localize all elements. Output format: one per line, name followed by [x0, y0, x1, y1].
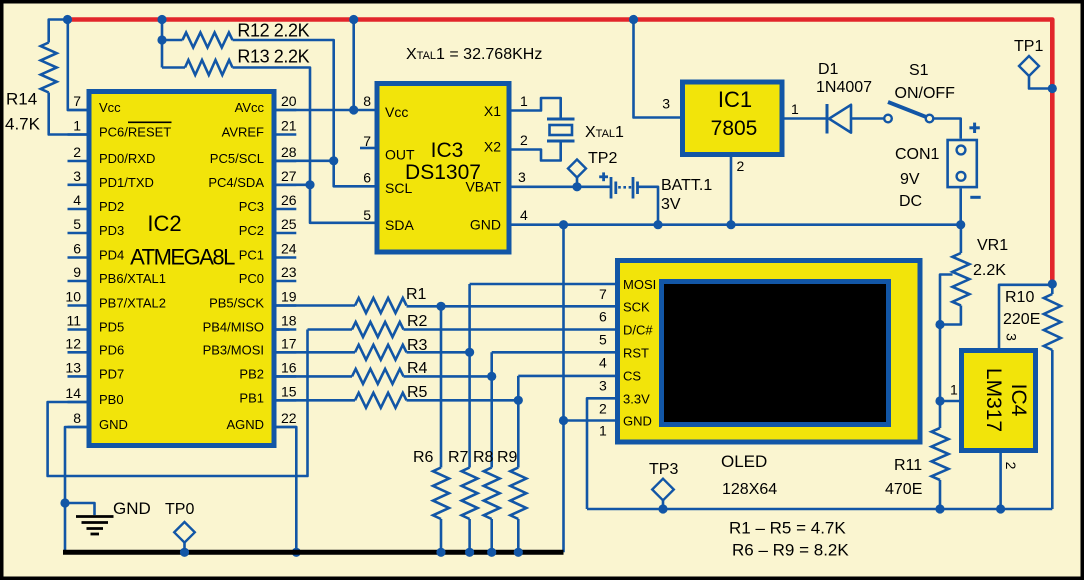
IC2 pin 17 stub: [277, 351, 297, 354]
connector CON1: [948, 140, 977, 187]
node rail-AVcc: [349, 15, 358, 24]
svg-text:6: 6: [73, 241, 81, 257]
svg-text:10: 10: [65, 289, 81, 305]
IC2 pin 25 stub: [277, 232, 297, 235]
svg-text:RST: RST: [623, 345, 649, 360]
svg-text:6: 6: [363, 170, 371, 186]
svg-text:8: 8: [363, 93, 371, 109]
svg-text:R10: R10: [1005, 289, 1034, 306]
svg-text:PB2: PB2: [239, 366, 264, 381]
svg-text:1N4007: 1N4007: [816, 79, 872, 96]
node R1-R6: [436, 302, 445, 311]
svg-text:25: 25: [281, 216, 297, 232]
battery dots: [618, 186, 631, 189]
IC2 pin 18 stub wire: [277, 328, 297, 331]
svg-text:R14: R14: [6, 90, 37, 109]
svg-text:3V: 3V: [661, 196, 681, 213]
svg-text:PB4/MISO: PB4/MISO: [203, 320, 264, 335]
node SCL junction: [329, 156, 338, 165]
vertical wire SCK to R6: [440, 306, 443, 467]
R11 bottom lead: [939, 480, 942, 509]
crystal XTAL1 body: [550, 125, 573, 135]
svg-text:17: 17: [281, 335, 297, 351]
svg-text:PD6: PD6: [99, 342, 124, 357]
svg-text:14: 14: [65, 385, 81, 401]
wire IC3 GND down to ground bus: [562, 225, 565, 553]
wire GND net to VR1: [960, 225, 963, 253]
svg-text:DS1307: DS1307: [405, 161, 481, 184]
diode D1 cathode bar: [826, 104, 829, 134]
CON1 bottom terminal: [957, 172, 966, 181]
IC2 pin 4 stub: [68, 208, 87, 211]
svg-text:PB3/MOSI: PB3/MOSI: [203, 342, 264, 357]
svg-text:9: 9: [73, 264, 81, 280]
svg-text:R2: R2: [407, 313, 428, 330]
IC2 pin 14 stub: [68, 401, 87, 404]
IC2 pin 6 stub: [68, 256, 87, 259]
svg-text:GND: GND: [113, 499, 151, 518]
ground return wire: [512, 223, 961, 226]
IC2 pin 7 stub: [68, 109, 87, 112]
wire PB0 loop to R2: [308, 328, 353, 331]
wire X1 to crystal: [512, 98, 561, 118]
R8 lead to bus: [490, 519, 493, 552]
svg-text:D/C#: D/C#: [623, 323, 653, 338]
svg-text:2: 2: [520, 132, 528, 148]
wire R13 to SDA net: [233, 68, 311, 185]
test point TP3: [652, 479, 674, 501]
svg-text:3: 3: [662, 96, 670, 112]
svg-text:PD2: PD2: [99, 199, 124, 214]
IC2 pin 18 stub: [277, 328, 290, 331]
node rail-IC1: [629, 15, 638, 24]
svg-text:IC2: IC2: [147, 211, 181, 236]
wire pin16 to R4: [277, 375, 353, 378]
svg-text:1: 1: [599, 423, 607, 439]
test point TP1: [1019, 56, 1039, 76]
svg-text:IC1: IC1: [718, 87, 752, 112]
svg-text:220E: 220E: [1003, 311, 1040, 328]
svg-text:GND: GND: [99, 417, 128, 432]
svg-text:OLED: OLED: [721, 452, 767, 471]
resistor R9: [510, 468, 526, 520]
IC2 pin 27 stub: [277, 184, 297, 187]
svg-text:5: 5: [599, 332, 607, 348]
node R4-RST: [487, 372, 496, 381]
resistor R1: [355, 298, 407, 313]
connector CON1 plus sign: [969, 123, 979, 133]
svg-text:2: 2: [599, 400, 607, 416]
svg-text:PC4/SDA: PC4/SDA: [208, 175, 264, 190]
VR1 bottom lead: [940, 306, 961, 325]
svg-text:TP0: TP0: [165, 501, 194, 518]
svg-text:2: 2: [1003, 462, 1019, 470]
svg-text:2: 2: [73, 144, 81, 160]
svg-text:6: 6: [599, 308, 607, 324]
R11 top lead: [939, 401, 942, 428]
wire CON1 to GND net: [959, 188, 962, 224]
svg-text:1: 1: [520, 93, 528, 109]
resistor R8: [484, 468, 500, 520]
svg-text:R1: R1: [406, 286, 427, 303]
node GND-OLED vertical: [559, 220, 568, 229]
node TP3-rail: [658, 504, 667, 513]
IC2 pin 21 stub: [277, 133, 297, 136]
battery BATT.1 plus sign: [599, 172, 608, 181]
svg-text:22: 22: [281, 410, 297, 426]
svg-text:PB1: PB1: [239, 390, 264, 405]
svg-text:R8: R8: [473, 449, 494, 466]
node IC4 pin1 junction: [935, 396, 944, 405]
svg-text:PD0/RXD: PD0/RXD: [99, 151, 155, 166]
battery BATT.1 short plate 2: [636, 182, 639, 195]
wire R14 to pin1: [49, 93, 87, 135]
node TP2-VBAT: [572, 182, 581, 191]
IC2 pin 10 stub: [68, 304, 87, 307]
svg-text:28: 28: [281, 144, 297, 160]
svg-text:PB6/XTAL1: PB6/XTAL1: [99, 271, 166, 286]
resistor R14: [41, 43, 57, 93]
svg-text:Vcc: Vcc: [99, 100, 121, 115]
wire battery to GND net: [638, 187, 659, 225]
node R9-bus: [514, 548, 523, 557]
svg-text:2: 2: [737, 158, 745, 174]
IC2 pin 9 stub: [68, 280, 87, 283]
svg-text:5: 5: [363, 207, 371, 223]
IC2 pin 19 stub: [277, 304, 297, 307]
RESET overline: [128, 121, 172, 123]
wire D1 to switch: [851, 117, 884, 120]
node R8-bus: [487, 548, 496, 557]
crystal XTAL1 top plate: [547, 118, 575, 121]
connector CON1 minus sign: [970, 196, 980, 199]
IC2 pin 3 stub: [68, 184, 87, 187]
wire 3.3V pin to output rail: [587, 398, 615, 509]
node CON1 minus-GND: [956, 220, 965, 229]
svg-text:R11: R11: [894, 457, 922, 474]
wire pin27 to SDA node: [277, 184, 311, 187]
node AGND-bus: [292, 548, 301, 557]
IC2 pin 28 stub: [277, 160, 297, 163]
R10 top lead: [1051, 284, 1054, 294]
svg-text:PB0: PB0: [99, 392, 124, 407]
wire GND pin row: [564, 419, 616, 422]
node rail end R10: [1048, 279, 1057, 288]
svg-text:R5: R5: [407, 384, 428, 401]
wire rail down to IC1 pin3: [634, 20, 681, 118]
svg-text:TP2: TP2: [588, 150, 617, 167]
TP3 stem: [662, 500, 665, 509]
svg-text:4: 4: [599, 354, 607, 370]
switch S1 left contact: [884, 115, 892, 123]
IC2 pin 16 stub: [277, 375, 297, 378]
wire to R12: [162, 39, 183, 42]
node IC1 pin2-GND: [726, 220, 735, 229]
svg-text:19: 19: [281, 289, 297, 305]
svg-text:PC2: PC2: [239, 223, 264, 238]
wire crystal to X2: [512, 143, 561, 161]
svg-text:X1: X1: [484, 103, 501, 119]
wire pin15 to R5: [277, 399, 356, 402]
svg-text:PD7: PD7: [99, 366, 124, 381]
svg-text:24: 24: [281, 241, 297, 257]
svg-text:PC3: PC3: [239, 199, 264, 214]
svg-text:27: 27: [281, 168, 297, 184]
wire switch to CON1: [933, 119, 960, 139]
IC2 pin 11 stub: [68, 328, 87, 331]
svg-text:ON/OFF: ON/OFF: [895, 85, 956, 102]
node R6-bus: [436, 548, 445, 557]
resistor R6: [433, 468, 449, 520]
svg-text:LM317: LM317: [982, 368, 1005, 432]
wire rail down to AVcc net: [352, 20, 355, 111]
svg-text:26: 26: [281, 192, 297, 208]
svg-text:23: 23: [281, 264, 297, 280]
svg-text:PD1/TXD: PD1/TXD: [99, 175, 154, 190]
resistor R12: [183, 33, 233, 48]
svg-text:20: 20: [281, 93, 297, 109]
node IC4 pin2-rail: [996, 504, 1005, 513]
TP0 stem: [183, 543, 186, 553]
ground symbol: [76, 517, 114, 535]
vertical wire RST to R8: [490, 352, 493, 467]
svg-text:470E: 470E: [885, 481, 922, 498]
svg-text:PD5: PD5: [99, 320, 124, 335]
svg-text:R4: R4: [407, 360, 428, 377]
svg-text:3: 3: [599, 377, 607, 393]
IC1 pin 1 wire: [785, 117, 828, 120]
wire pin28 to SCL node: [277, 160, 334, 163]
node R7-bus: [465, 548, 474, 557]
ground bus (black): [63, 550, 564, 555]
svg-text:4: 4: [520, 207, 528, 223]
resistor R4: [352, 369, 404, 384]
svg-text:R12 2.2K: R12 2.2K: [237, 20, 309, 40]
wire CS row: [518, 375, 615, 378]
svg-text:D1: D1: [818, 61, 839, 78]
svg-text:18: 18: [281, 313, 297, 329]
svg-text:PC1: PC1: [239, 248, 264, 263]
wire R2 to OLED D/C#: [404, 328, 616, 331]
node R3-MOSI: [465, 348, 474, 357]
IC4 pin 2 wire: [999, 453, 1002, 509]
IC2 pin 20 stub: [277, 109, 297, 112]
svg-text:R6: R6: [413, 449, 434, 466]
svg-text:13: 13: [65, 359, 81, 375]
svg-text:7: 7: [73, 93, 81, 109]
svg-text:TP3: TP3: [649, 461, 678, 478]
svg-text:BATT.1: BATT.1: [661, 177, 712, 194]
IC4 pin 1 wire: [940, 400, 959, 403]
test point TP0: [174, 522, 195, 543]
svg-text:R9: R9: [497, 449, 518, 466]
svg-text:TP1: TP1: [1014, 38, 1043, 55]
resistor R10: [1044, 294, 1061, 350]
wire AVcc to IC3 Vcc: [277, 109, 375, 112]
svg-text:CON1: CON1: [895, 146, 940, 163]
svg-text:3: 3: [73, 168, 81, 184]
svg-text:21: 21: [281, 118, 297, 134]
svg-text:PB5/SCK: PB5/SCK: [209, 296, 264, 311]
svg-text:R13 2.2K: R13 2.2K: [237, 46, 309, 66]
IC2 pin 8 stub: [68, 426, 87, 429]
wire RST row: [492, 351, 615, 354]
test point TP2: [568, 160, 586, 178]
svg-text:AVcc: AVcc: [235, 100, 265, 115]
node TP1-rail: [1048, 84, 1057, 93]
battery BATT.1 long plate 1: [610, 177, 613, 199]
resistor R7: [462, 468, 478, 520]
svg-text:MOSI: MOSI: [623, 277, 656, 292]
wire MOSI row: [470, 283, 615, 286]
IC2 pin 22 stub: [277, 426, 297, 429]
svg-text:7805: 7805: [711, 117, 758, 140]
CON1 top terminal: [957, 146, 966, 155]
svg-text:SCK: SCK: [623, 299, 650, 314]
microcontroller IC2 ATMEGA8L: [89, 92, 274, 446]
battery BATT.1 short plate 1: [614, 182, 617, 195]
wire to R13: [162, 66, 185, 69]
IC2 pin 15 stub: [277, 399, 297, 402]
svg-text:AGND: AGND: [226, 417, 264, 432]
svg-text:Vcc: Vcc: [385, 104, 408, 120]
svg-text:1: 1: [73, 118, 81, 134]
svg-text:8: 8: [73, 410, 81, 426]
svg-text:16: 16: [281, 359, 297, 375]
svg-text:R7: R7: [448, 449, 469, 466]
svg-text:11: 11: [66, 313, 81, 329]
svg-text:GND: GND: [623, 414, 652, 429]
wire to ground symbol: [65, 503, 95, 515]
wire R1 to OLED SCK: [407, 305, 616, 308]
wire PB0 pin14 loop: [48, 330, 308, 477]
resistor R3: [355, 345, 407, 360]
resistor R11: [932, 428, 949, 480]
wire R12 to SCL net: [233, 40, 334, 161]
node GND junction: [60, 498, 69, 507]
wire R3 to MOSI vertical: [407, 351, 470, 354]
wire R10 to 3.3V rail: [1051, 350, 1054, 509]
R7 lead to bus: [468, 519, 471, 552]
svg-text:AVREF: AVREF: [222, 125, 264, 140]
svg-text:9V: 9V: [900, 171, 920, 188]
IC3 pin 7 stub OUT: [360, 147, 375, 150]
svg-text:IC4: IC4: [1007, 384, 1030, 417]
switch S1 right contact: [926, 115, 934, 123]
diode D1 triangle: [829, 105, 851, 133]
wire rail to R14: [49, 20, 68, 43]
svg-text:4.7K: 4.7K: [5, 115, 41, 134]
svg-text:3: 3: [1004, 333, 1020, 341]
svg-text:7: 7: [363, 133, 371, 149]
IC2 pin 5 stub: [68, 232, 87, 235]
IC2 pin 23 stub: [277, 280, 297, 283]
crystal XTAL1 bottom plate: [547, 140, 575, 143]
wire rail to IC4 pin3: [999, 285, 1052, 348]
svg-text:128X64: 128X64: [722, 481, 777, 498]
svg-text:1: 1: [950, 382, 958, 398]
node TP0-bus: [180, 548, 189, 557]
svg-text:PC5/SCL: PC5/SCL: [210, 151, 264, 166]
IC1 pin 2 wire: [730, 157, 733, 225]
node R11-rail: [935, 504, 944, 513]
svg-text:ATMEGA8L: ATMEGA8L: [130, 245, 235, 270]
node R12R13 junction: [157, 35, 166, 44]
RTC IC3 DS1307: [377, 84, 509, 253]
svg-text:15: 15: [281, 383, 297, 399]
TP1 stem wire: [1029, 76, 1052, 89]
IC2 pin 24 stub: [277, 256, 297, 259]
resistor R5: [355, 393, 407, 408]
svg-text:12: 12: [65, 335, 81, 351]
wire SCL node to IC3 SCL: [334, 161, 375, 187]
wire AGND pin22 down: [277, 427, 297, 552]
wire VR1 to IC4 pin1 node: [939, 325, 942, 402]
svg-text:PC0: PC0: [239, 271, 264, 286]
svg-text:3.3V: 3.3V: [623, 391, 650, 406]
svg-text:DC: DC: [899, 193, 922, 210]
Vcc power rail (red): [66, 20, 1052, 285]
R9 lead to bus: [517, 519, 520, 552]
svg-text:1: 1: [791, 101, 799, 117]
resistor R2: [352, 322, 404, 337]
wire pin17 to R3: [277, 351, 356, 354]
wire rail to Vcc pin7: [68, 20, 87, 111]
OLED module box: [618, 261, 921, 443]
node battery-GND: [653, 220, 662, 229]
VR1 wiper tap: [940, 275, 953, 325]
vertical wire MOSI to R7: [468, 284, 471, 468]
svg-text:4: 4: [73, 192, 81, 208]
TP2 stem: [576, 178, 579, 187]
node VR1 wiper-bottom: [935, 320, 944, 329]
svg-text:S1: S1: [909, 62, 929, 79]
IC2 pin 2 stub: [68, 160, 87, 163]
svg-text:PC6/RESET: PC6/RESET: [99, 125, 171, 140]
svg-text:3: 3: [518, 169, 526, 185]
node AVcc-Vcc junction: [349, 105, 358, 114]
resistor R13: [185, 60, 233, 75]
R6 lead to bus: [440, 519, 443, 552]
switch S1 lever: [888, 102, 927, 117]
wire pin19 to R1: [277, 304, 356, 307]
svg-text:R6 – R9 = 8.2K: R6 – R9 = 8.2K: [732, 541, 849, 560]
svg-text:GND: GND: [470, 217, 501, 233]
svg-text:7: 7: [599, 286, 607, 302]
IC2 pin 1 stub: [68, 133, 87, 136]
IC2 pin 13 stub: [68, 375, 87, 378]
wire GND pin8 down: [65, 427, 87, 552]
wire R5 to CS vertical: [407, 399, 519, 402]
wire VBAT to battery: [512, 186, 611, 189]
wire R4 to RST vertical: [404, 375, 492, 378]
node OLED GND: [559, 416, 568, 425]
svg-text:IC3: IC3: [431, 139, 464, 162]
battery BATT.1 long plate 2: [632, 177, 635, 199]
svg-text:SDA: SDA: [385, 217, 414, 233]
node R5-CS: [514, 396, 523, 405]
vertical wire CS to R9: [517, 376, 520, 468]
wire SDA node to IC3 SDA: [310, 185, 375, 223]
IC2 pin 12 stub: [68, 351, 87, 354]
svg-text:PD3: PD3: [99, 223, 124, 238]
regulator IC4 LM317: [962, 351, 1036, 451]
3.3V output rail: [587, 508, 1052, 511]
node rail-R14: [63, 15, 72, 24]
svg-text:R1 – R5 = 4.7K: R1 – R5 = 4.7K: [729, 519, 846, 538]
node SDA junction: [305, 180, 314, 189]
svg-text:5: 5: [73, 216, 81, 232]
